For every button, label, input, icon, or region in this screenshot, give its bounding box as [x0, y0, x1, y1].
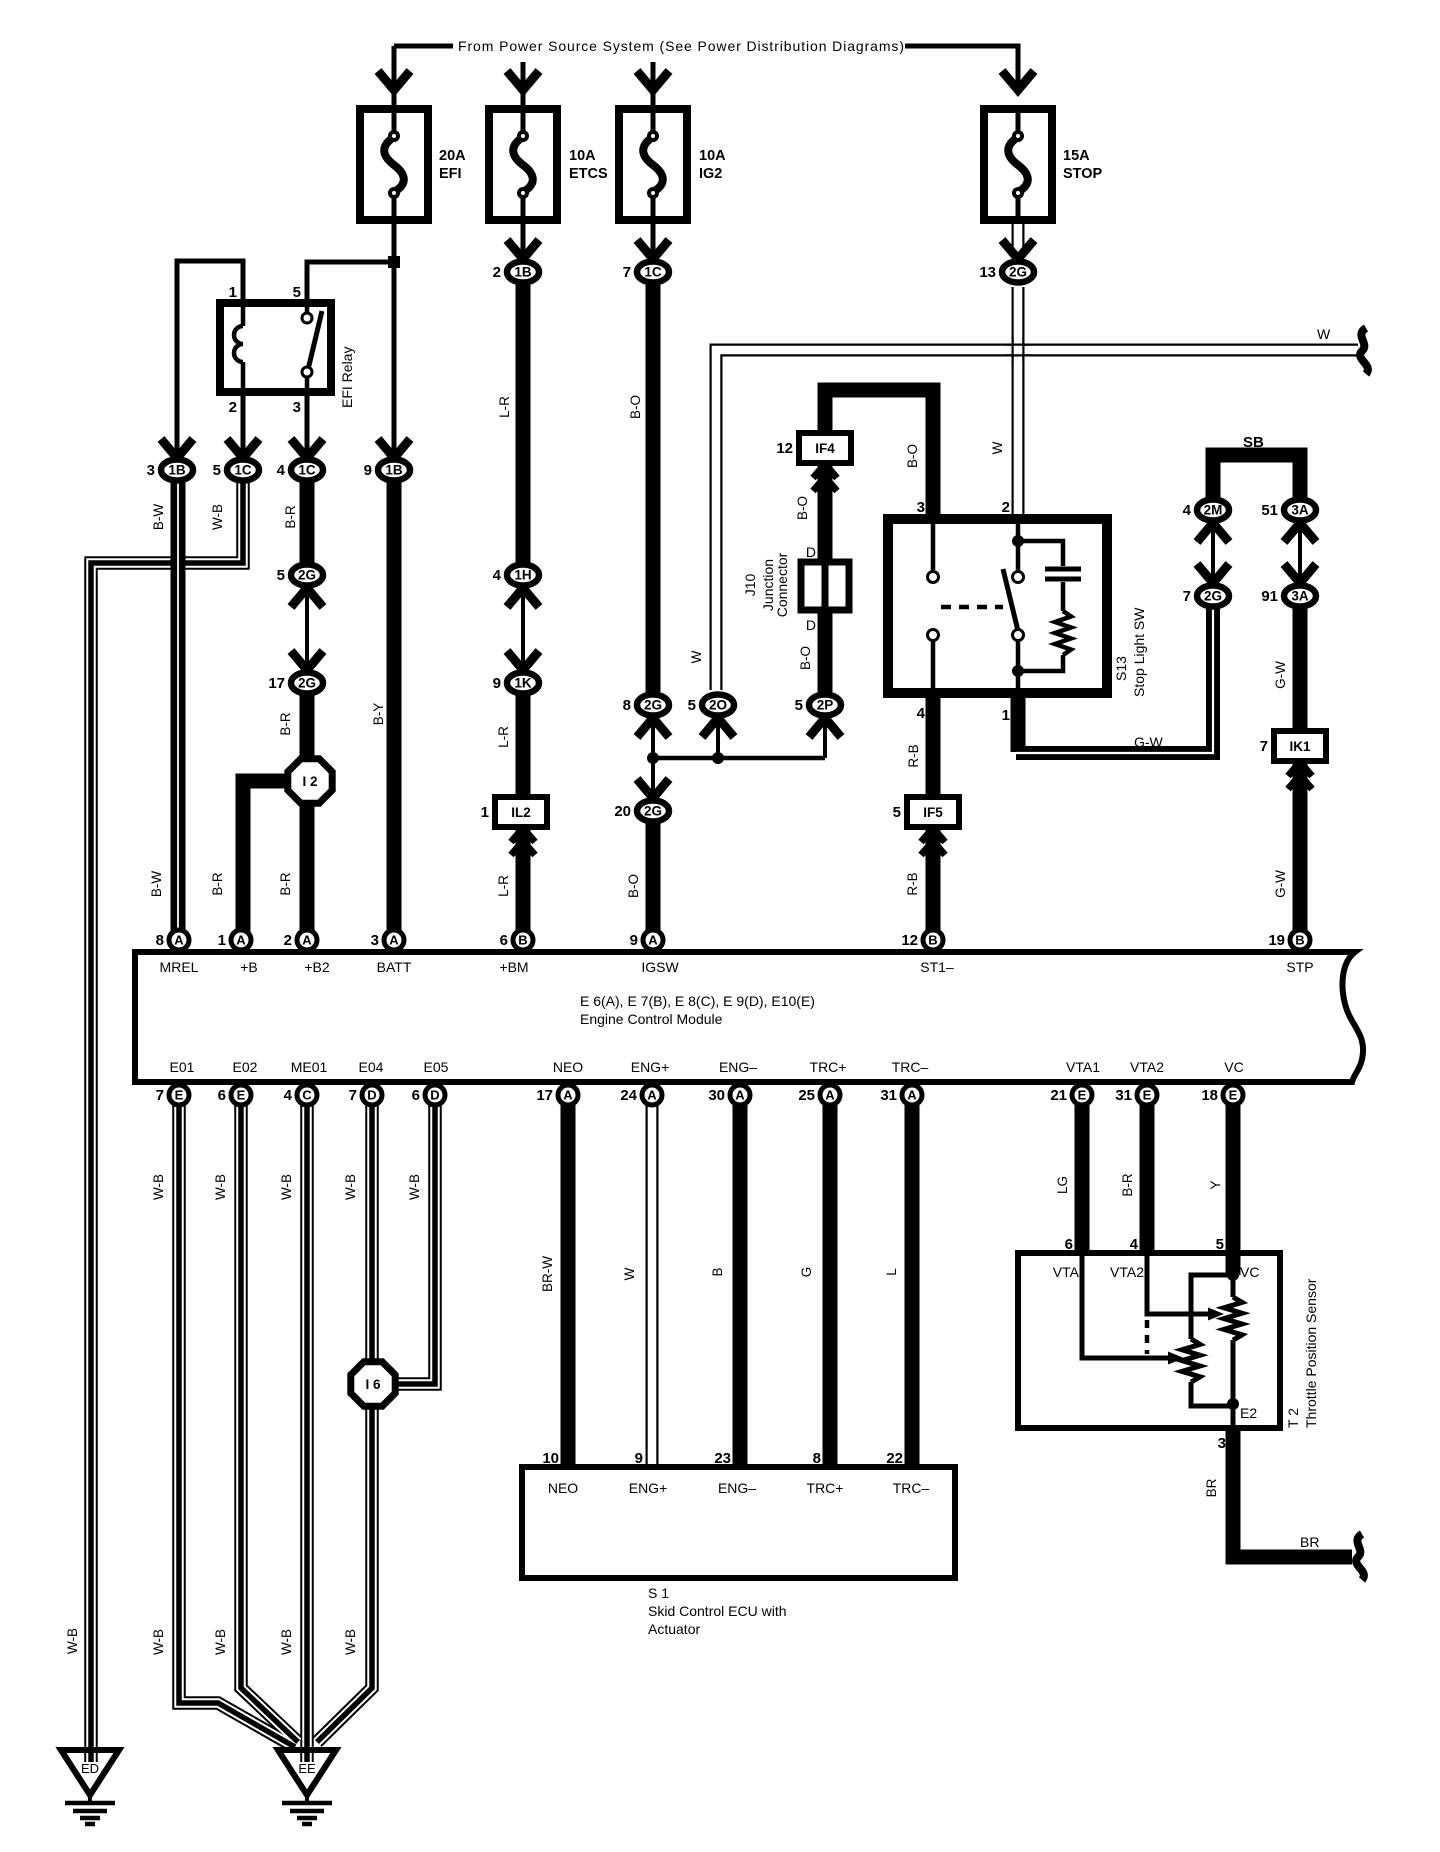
svg-text:6: 6: [1065, 1236, 1073, 1253]
svg-text:7: 7: [1260, 738, 1268, 755]
svg-text:VTA2: VTA2: [1130, 1059, 1164, 1075]
arrow into 7 2G: [1197, 564, 1229, 583]
svg-text:G-W: G-W: [1134, 734, 1164, 750]
wire BR from throttle position sensor E2: [1233, 1428, 1352, 1557]
svg-text:B-R: B-R: [210, 872, 225, 896]
svg-text:4: 4: [917, 705, 926, 722]
svg-text:1B: 1B: [168, 463, 186, 478]
ECM pin 7 E E01: [169, 1085, 189, 1105]
svg-text:4: 4: [284, 1087, 293, 1104]
svg-text:VC: VC: [1240, 1264, 1259, 1280]
connector 17 2G: [291, 673, 323, 694]
svg-text:A: A: [174, 933, 184, 948]
svg-text:W-B: W-B: [407, 1174, 422, 1200]
wire B-R from 17 2G to junction I2: [300, 695, 315, 760]
break squiggle BR wire: [1356, 1534, 1364, 1580]
svg-text:ENG+: ENG+: [631, 1059, 670, 1075]
svg-text:D: D: [806, 617, 816, 633]
wire stub stop light switch pin 1: [1011, 690, 1026, 752]
svg-text:W-B: W-B: [151, 1629, 166, 1655]
svg-text:E05: E05: [424, 1059, 449, 1075]
arrow into 17 2G: [291, 651, 323, 670]
svg-text:W-B: W-B: [279, 1629, 294, 1655]
svg-text:W: W: [1317, 326, 1331, 342]
svg-text:B-W: B-W: [151, 504, 166, 531]
arrow into 4 2M: [1197, 523, 1229, 542]
junction connector J10: [801, 562, 849, 610]
junction square at fuse EFI tee: [388, 256, 400, 268]
svg-text:2G: 2G: [298, 568, 316, 583]
fuse 10A ETCS: [489, 109, 557, 220]
svg-text:1: 1: [1002, 707, 1010, 724]
svg-text:3: 3: [917, 499, 925, 516]
wire B-R from 4 1C to 5 2G: [300, 482, 315, 563]
svg-text:6: 6: [412, 1087, 420, 1104]
svg-text:10A: 10A: [569, 148, 596, 164]
wire EFI relay pin 2 to 5 1C: [241, 392, 246, 460]
svg-text:Stop Light SW: Stop Light SW: [1131, 607, 1147, 697]
svg-text:B-O: B-O: [795, 496, 810, 520]
svg-text:I 2: I 2: [302, 774, 317, 789]
svg-text:W: W: [689, 650, 704, 663]
wire L-R from IL2 to ECM pin +BM: [516, 826, 531, 945]
svg-text:W-B: W-B: [151, 1174, 166, 1200]
arrow into 8 2G: [637, 718, 669, 737]
svg-text:E02: E02: [233, 1059, 258, 1075]
svg-text:24: 24: [620, 1087, 637, 1104]
link 5 2G to 17 2G: [305, 587, 309, 671]
svg-text:Connector: Connector: [774, 552, 790, 617]
connector 5 2O: [702, 695, 734, 716]
svg-text:30: 30: [708, 1087, 725, 1104]
svg-text:A: A: [236, 933, 246, 948]
engine control module box: [135, 952, 1363, 1082]
svg-text:L-R: L-R: [497, 396, 512, 418]
stub junction to 5 2P: [823, 717, 827, 758]
svg-text:A: A: [647, 1088, 657, 1103]
svg-text:4: 4: [277, 462, 286, 479]
svg-text:E: E: [1143, 1088, 1152, 1103]
svg-text:L: L: [884, 1268, 899, 1276]
svg-text:1C: 1C: [234, 463, 252, 478]
throttle position sensor T2: [1018, 1253, 1280, 1428]
connector 4 1C: [291, 460, 323, 481]
svg-text:W-B: W-B: [65, 1628, 80, 1654]
svg-text:12: 12: [776, 440, 793, 457]
svg-text:E: E: [237, 1088, 246, 1103]
svg-text:13: 13: [979, 264, 996, 281]
svg-text:3A: 3A: [1291, 589, 1309, 604]
svg-text:L-R: L-R: [496, 875, 511, 897]
svg-text:D: D: [430, 1088, 439, 1103]
svg-text:7: 7: [349, 1087, 357, 1104]
svg-text:W: W: [622, 1267, 637, 1280]
svg-text:ST1–: ST1–: [920, 959, 954, 975]
link 4 2M to 7 2G: [1211, 522, 1215, 584]
svg-text:+B2: +B2: [304, 959, 330, 975]
wire B-O from J10 to junction IF4: [818, 461, 833, 564]
ECM pin 4 C ME01: [297, 1085, 317, 1105]
svg-text:TRC–: TRC–: [893, 1480, 930, 1496]
stop light switch S13: [888, 519, 1107, 693]
connector 7 1C: [637, 262, 669, 283]
svg-text:ME01: ME01: [291, 1059, 328, 1075]
svg-text:B: B: [518, 933, 527, 948]
wire G-W from 91 3A to junction IK1: [1293, 608, 1308, 733]
svg-text:+B: +B: [240, 959, 258, 975]
arrow into 13 2G: [1002, 240, 1034, 259]
wire fuse IG2 to 7 1C: [651, 220, 656, 258]
svg-text:ENG–: ENG–: [719, 1059, 757, 1075]
svg-text:2G: 2G: [1009, 265, 1027, 280]
svg-text:E: E: [1078, 1088, 1087, 1103]
arrow into fuse IG2 feed: [637, 71, 669, 90]
svg-text:EFI Relay: EFI Relay: [339, 347, 355, 408]
svg-text:ENG–: ENG–: [718, 1480, 756, 1496]
svg-text:B: B: [1295, 933, 1304, 948]
svg-text:T 2: T 2: [1285, 1408, 1301, 1428]
wire L TRC- from ECM to skid control ECU: [905, 1105, 920, 1469]
connector 9 1B: [378, 460, 410, 481]
svg-text:W: W: [990, 441, 1005, 454]
EFI relay: [220, 303, 331, 392]
fuse 15A STOP: [984, 109, 1052, 220]
svg-text:E04: E04: [359, 1059, 384, 1075]
svg-text:From Power Source System (See: From Power Source System (See Power Dist…: [458, 38, 904, 54]
svg-text:3: 3: [371, 932, 379, 949]
ECM pin 31 E VTA2: [1137, 1085, 1157, 1105]
arrow into 5 2P: [809, 718, 841, 737]
wire G-W from IK1 to ECM pin STP: [1293, 760, 1308, 945]
svg-text:5: 5: [688, 697, 696, 714]
svg-text:2G: 2G: [298, 676, 316, 691]
ECM pin 9 A IGSW: [643, 930, 663, 950]
svg-text:EFI: EFI: [439, 166, 462, 182]
power source line left segment: [394, 44, 453, 49]
svg-text:2M: 2M: [1204, 503, 1223, 518]
svg-text:J10: J10: [742, 574, 758, 597]
connector 3 1B: [161, 460, 193, 481]
svg-text:B-R: B-R: [1120, 1173, 1135, 1197]
svg-text:2G: 2G: [644, 698, 662, 713]
svg-text:R-B: R-B: [905, 872, 920, 895]
ECM pin 17 A NEO: [558, 1085, 578, 1105]
wire B-Y from 9 1B to ECM pin BATT: [387, 482, 402, 945]
wire B-W MREL from 3 1B to ECM pin 8A: [171, 482, 186, 945]
svg-text:A: A: [825, 1088, 835, 1103]
svg-text:D: D: [367, 1088, 376, 1103]
hairline stripe on wire B-W MREL: [177, 482, 179, 945]
junction I6: [351, 1362, 395, 1406]
junction IL2: [495, 797, 547, 827]
ECM pin 7 D E04: [362, 1085, 382, 1105]
svg-text:21: 21: [1050, 1087, 1067, 1104]
svg-text:ETCS: ETCS: [569, 166, 608, 182]
svg-text:91: 91: [1261, 588, 1278, 605]
svg-text:BATT: BATT: [377, 959, 412, 975]
svg-text:E2: E2: [1240, 1405, 1257, 1421]
ground EE: [278, 1750, 336, 1795]
wire R-B from IF5 to ECM pin ST1-: [926, 826, 941, 945]
svg-text:1: 1: [218, 932, 226, 949]
ECM pin 19 B STP: [1290, 930, 1310, 950]
connector 13 2G: [1002, 262, 1034, 283]
svg-text:31: 31: [1115, 1087, 1132, 1104]
svg-text:E01: E01: [170, 1059, 195, 1075]
junction IF5: [907, 797, 959, 827]
connector 8 2G: [637, 695, 669, 716]
connector 4 1H: [507, 565, 539, 586]
junction IK1: [1274, 731, 1326, 761]
arrow into 5 1C: [227, 439, 259, 458]
svg-text:19: 19: [1268, 932, 1285, 949]
svg-text:W-B: W-B: [210, 504, 225, 530]
svg-text:E 6(A), E 7(B), E 8(C), E 9(D): E 6(A), E 7(B), E 8(C), E 9(D), E10(E): [580, 993, 815, 1009]
svg-text:B-R: B-R: [278, 872, 293, 896]
thin white-coded wires (layered): [91, 482, 243, 1752]
wire EFI relay pin 5 to fuse EFI tee: [307, 262, 394, 303]
power source line right segment: [905, 46, 1018, 90]
ECM pin 8 A MREL: [169, 930, 189, 950]
double arrow into IK1: [1288, 762, 1312, 776]
svg-text:B-R: B-R: [278, 712, 293, 736]
svg-text:20A: 20A: [439, 148, 466, 164]
junction IF4: [799, 433, 851, 463]
arrow into 20 2G: [637, 779, 669, 798]
svg-text:6: 6: [500, 932, 508, 949]
svg-text:2: 2: [493, 264, 501, 281]
svg-text:1B: 1B: [514, 265, 532, 280]
svg-text:VTA: VTA: [1053, 1264, 1080, 1280]
svg-text:8: 8: [623, 697, 631, 714]
svg-text:ED: ED: [81, 1761, 99, 1776]
svg-text:51: 51: [1261, 502, 1278, 519]
svg-text:17: 17: [268, 675, 285, 692]
arrow into fuse ETCS feed: [507, 71, 539, 90]
wire EFI relay pin 3 to 4 1C: [305, 392, 310, 460]
svg-text:A: A: [907, 1088, 917, 1103]
connector 51 3A: [1284, 500, 1316, 521]
svg-text:7: 7: [623, 264, 631, 281]
connector 4 2M: [1197, 500, 1229, 521]
junction dot at 5 2O branch: [712, 752, 724, 764]
svg-text:12: 12: [901, 932, 918, 949]
svg-text:9: 9: [364, 462, 372, 479]
arrow into 4 1C: [291, 439, 323, 458]
connector 5 2P: [809, 695, 841, 716]
svg-text:10: 10: [542, 1450, 559, 1467]
wire fuse ETCS to 2 1B: [521, 220, 526, 258]
junction line 8 2G / 5 2O / 5 2P: [653, 756, 825, 761]
feed stub to fuse IG2: [651, 62, 656, 109]
svg-text:2P: 2P: [817, 698, 834, 713]
svg-text:3A: 3A: [1291, 503, 1309, 518]
svg-text:D: D: [806, 544, 816, 560]
svg-text:1: 1: [481, 804, 489, 821]
svg-text:TRC+: TRC+: [810, 1059, 847, 1075]
link 51 3A to 91 3A: [1298, 522, 1302, 584]
svg-text:B-Y: B-Y: [371, 703, 386, 726]
svg-text:3: 3: [147, 462, 155, 479]
svg-text:1H: 1H: [514, 568, 531, 583]
svg-text:G: G: [799, 1267, 814, 1278]
wire B-O from 20 2G to ECM pin IGSW: [646, 823, 661, 945]
arrow into 5 2G: [291, 588, 323, 607]
fuse 20A EFI: [360, 109, 428, 220]
ECM pin 3 A BATT: [384, 930, 404, 950]
svg-text:2: 2: [284, 932, 292, 949]
arrow into 5 2O: [702, 718, 734, 737]
wire L-R from 2 1B to 4 1H: [516, 285, 531, 563]
svg-text:2G: 2G: [644, 804, 662, 819]
svg-text:5: 5: [1216, 1236, 1224, 1253]
arrow into 4 1H: [507, 588, 539, 607]
svg-text:W-B: W-B: [213, 1629, 228, 1655]
svg-text:2: 2: [229, 399, 237, 416]
ECM pin 6 E E02: [231, 1085, 251, 1105]
svg-text:B: B: [928, 933, 937, 948]
svg-text:8: 8: [156, 932, 164, 949]
wire B-R from junction I2 to ECM pin +B2: [300, 802, 315, 945]
svg-text:9: 9: [630, 932, 638, 949]
wire crossing patch W lines: [1006, 344, 1030, 346]
svg-text:BR: BR: [1300, 1534, 1319, 1550]
double arrow into IL2: [511, 828, 535, 842]
svg-text:4: 4: [1183, 502, 1192, 519]
svg-text:BR: BR: [1204, 1478, 1219, 1497]
svg-text:9: 9: [493, 675, 501, 692]
wire B ENG- from ECM to skid control ECU: [733, 1105, 748, 1469]
svg-text:IF5: IF5: [923, 805, 943, 820]
wire B-R from junction I2 to ECM pin +B: [243, 781, 290, 945]
svg-text:ENG+: ENG+: [629, 1480, 668, 1496]
arrow into 2 1B: [507, 240, 539, 259]
svg-text:W-B: W-B: [343, 1629, 358, 1655]
svg-text:STP: STP: [1286, 959, 1313, 975]
svg-text:IL2: IL2: [511, 805, 531, 820]
connector 9 1K: [507, 673, 539, 694]
ECM pin 18 E VC: [1223, 1085, 1243, 1105]
arrow into 9 1B: [378, 439, 410, 458]
svg-text:7: 7: [1183, 588, 1191, 605]
wire G TRC+ from ECM to skid control ECU: [823, 1105, 838, 1469]
svg-text:I 6: I 6: [365, 1377, 381, 1392]
feed stub to fuse ETCS: [521, 62, 526, 109]
svg-text:10A: 10A: [699, 148, 726, 164]
svg-text:B-O: B-O: [798, 646, 813, 670]
connector 5 2G: [291, 565, 323, 586]
svg-text:A: A: [648, 933, 658, 948]
svg-text:MREL: MREL: [160, 959, 199, 975]
connector 91 3A: [1284, 586, 1316, 607]
ECM pin 6 D E05: [425, 1085, 445, 1105]
svg-text:Actuator: Actuator: [648, 1621, 700, 1637]
svg-text:1: 1: [229, 284, 237, 301]
wire B-O from 7 1C to 8 2G: [646, 285, 661, 692]
svg-text:1C: 1C: [298, 463, 316, 478]
svg-text:15A: 15A: [1063, 148, 1090, 164]
svg-text:TRC–: TRC–: [892, 1059, 929, 1075]
svg-text:2O: 2O: [709, 698, 727, 713]
svg-text:C: C: [302, 1088, 312, 1103]
svg-text:NEO: NEO: [548, 1480, 578, 1496]
link 8 2G junction to 20 2G: [651, 717, 655, 799]
wire LG VTA1 from ECM to throttle position sensor: [1075, 1105, 1090, 1255]
ECM pin 31 A TRC-: [902, 1085, 922, 1105]
svg-text:7: 7: [156, 1087, 164, 1104]
svg-text:Engine Control Module: Engine Control Module: [580, 1011, 723, 1027]
svg-text:5: 5: [213, 462, 221, 479]
svg-text:31: 31: [880, 1087, 897, 1104]
svg-text:EE: EE: [298, 1761, 316, 1776]
svg-text:18: 18: [1201, 1087, 1218, 1104]
svg-text:NEO: NEO: [553, 1059, 583, 1075]
svg-text:G-W: G-W: [1273, 870, 1288, 898]
svg-text:E: E: [175, 1088, 184, 1103]
svg-text:A: A: [563, 1088, 573, 1103]
svg-text:VTA2: VTA2: [1110, 1264, 1144, 1280]
svg-text:STOP: STOP: [1063, 166, 1103, 182]
wire L-R from 9 1K to junction IL2: [516, 695, 531, 799]
svg-text:G-W: G-W: [1273, 661, 1288, 689]
ECM pin 1 A +B: [231, 930, 251, 950]
svg-text:B-W: B-W: [149, 871, 164, 898]
wire G-W from 7 2G to stop light switch pin 1: [1016, 608, 1213, 753]
svg-text:VTA1: VTA1: [1066, 1059, 1100, 1075]
svg-text:5: 5: [293, 284, 301, 301]
ECM pin 30 A ENG-: [730, 1085, 750, 1105]
svg-text:B: B: [710, 1267, 725, 1276]
svg-text:23: 23: [714, 1450, 731, 1467]
arrow into 9 1K: [507, 651, 539, 670]
svg-text:5: 5: [893, 804, 901, 821]
wire B-R VTA2 from ECM to throttle position sensor: [1140, 1105, 1155, 1255]
svg-text:Throttle Position Sensor: Throttle Position Sensor: [1303, 1278, 1319, 1428]
arrow into 3 1B: [161, 439, 193, 458]
svg-text:B-O: B-O: [626, 874, 641, 898]
svg-text:3: 3: [293, 399, 301, 416]
double arrow into IF5: [921, 828, 945, 842]
ECM pin 12 B ST1-: [923, 930, 943, 950]
svg-text:W-B: W-B: [343, 1174, 358, 1200]
svg-text:2G: 2G: [1204, 589, 1222, 604]
wire R-B from stop light switch pin 4 to junction IF5: [926, 690, 941, 799]
svg-text:A: A: [302, 933, 312, 948]
svg-text:2: 2: [1002, 499, 1010, 516]
junction dot at 8 2G branch: [647, 752, 659, 764]
svg-text:1K: 1K: [514, 676, 532, 691]
svg-text:17: 17: [536, 1087, 553, 1104]
svg-text:Skid Control ECU with: Skid Control ECU with: [648, 1603, 787, 1619]
svg-text:A: A: [735, 1088, 745, 1103]
svg-text:1C: 1C: [644, 265, 662, 280]
connector 5 1C: [227, 460, 259, 481]
svg-text:3: 3: [1218, 1435, 1226, 1452]
break squiggle W wire: [1360, 328, 1368, 374]
svg-text:9: 9: [635, 1450, 643, 1467]
link 4 1H to 9 1K: [521, 587, 525, 671]
svg-text:B-O: B-O: [628, 395, 643, 419]
wire 3 1B up-over to EFI relay pin 1: [177, 261, 243, 460]
arrow into 91 3A: [1284, 564, 1316, 583]
connector 7 2G: [1197, 586, 1229, 607]
svg-text:20: 20: [614, 803, 631, 820]
junction I2: [288, 759, 332, 803]
wire from power line to fuse EFI: [392, 46, 397, 109]
svg-text:IF4: IF4: [815, 441, 835, 456]
connector 20 2G: [637, 801, 669, 822]
svg-text:22: 22: [886, 1450, 903, 1467]
